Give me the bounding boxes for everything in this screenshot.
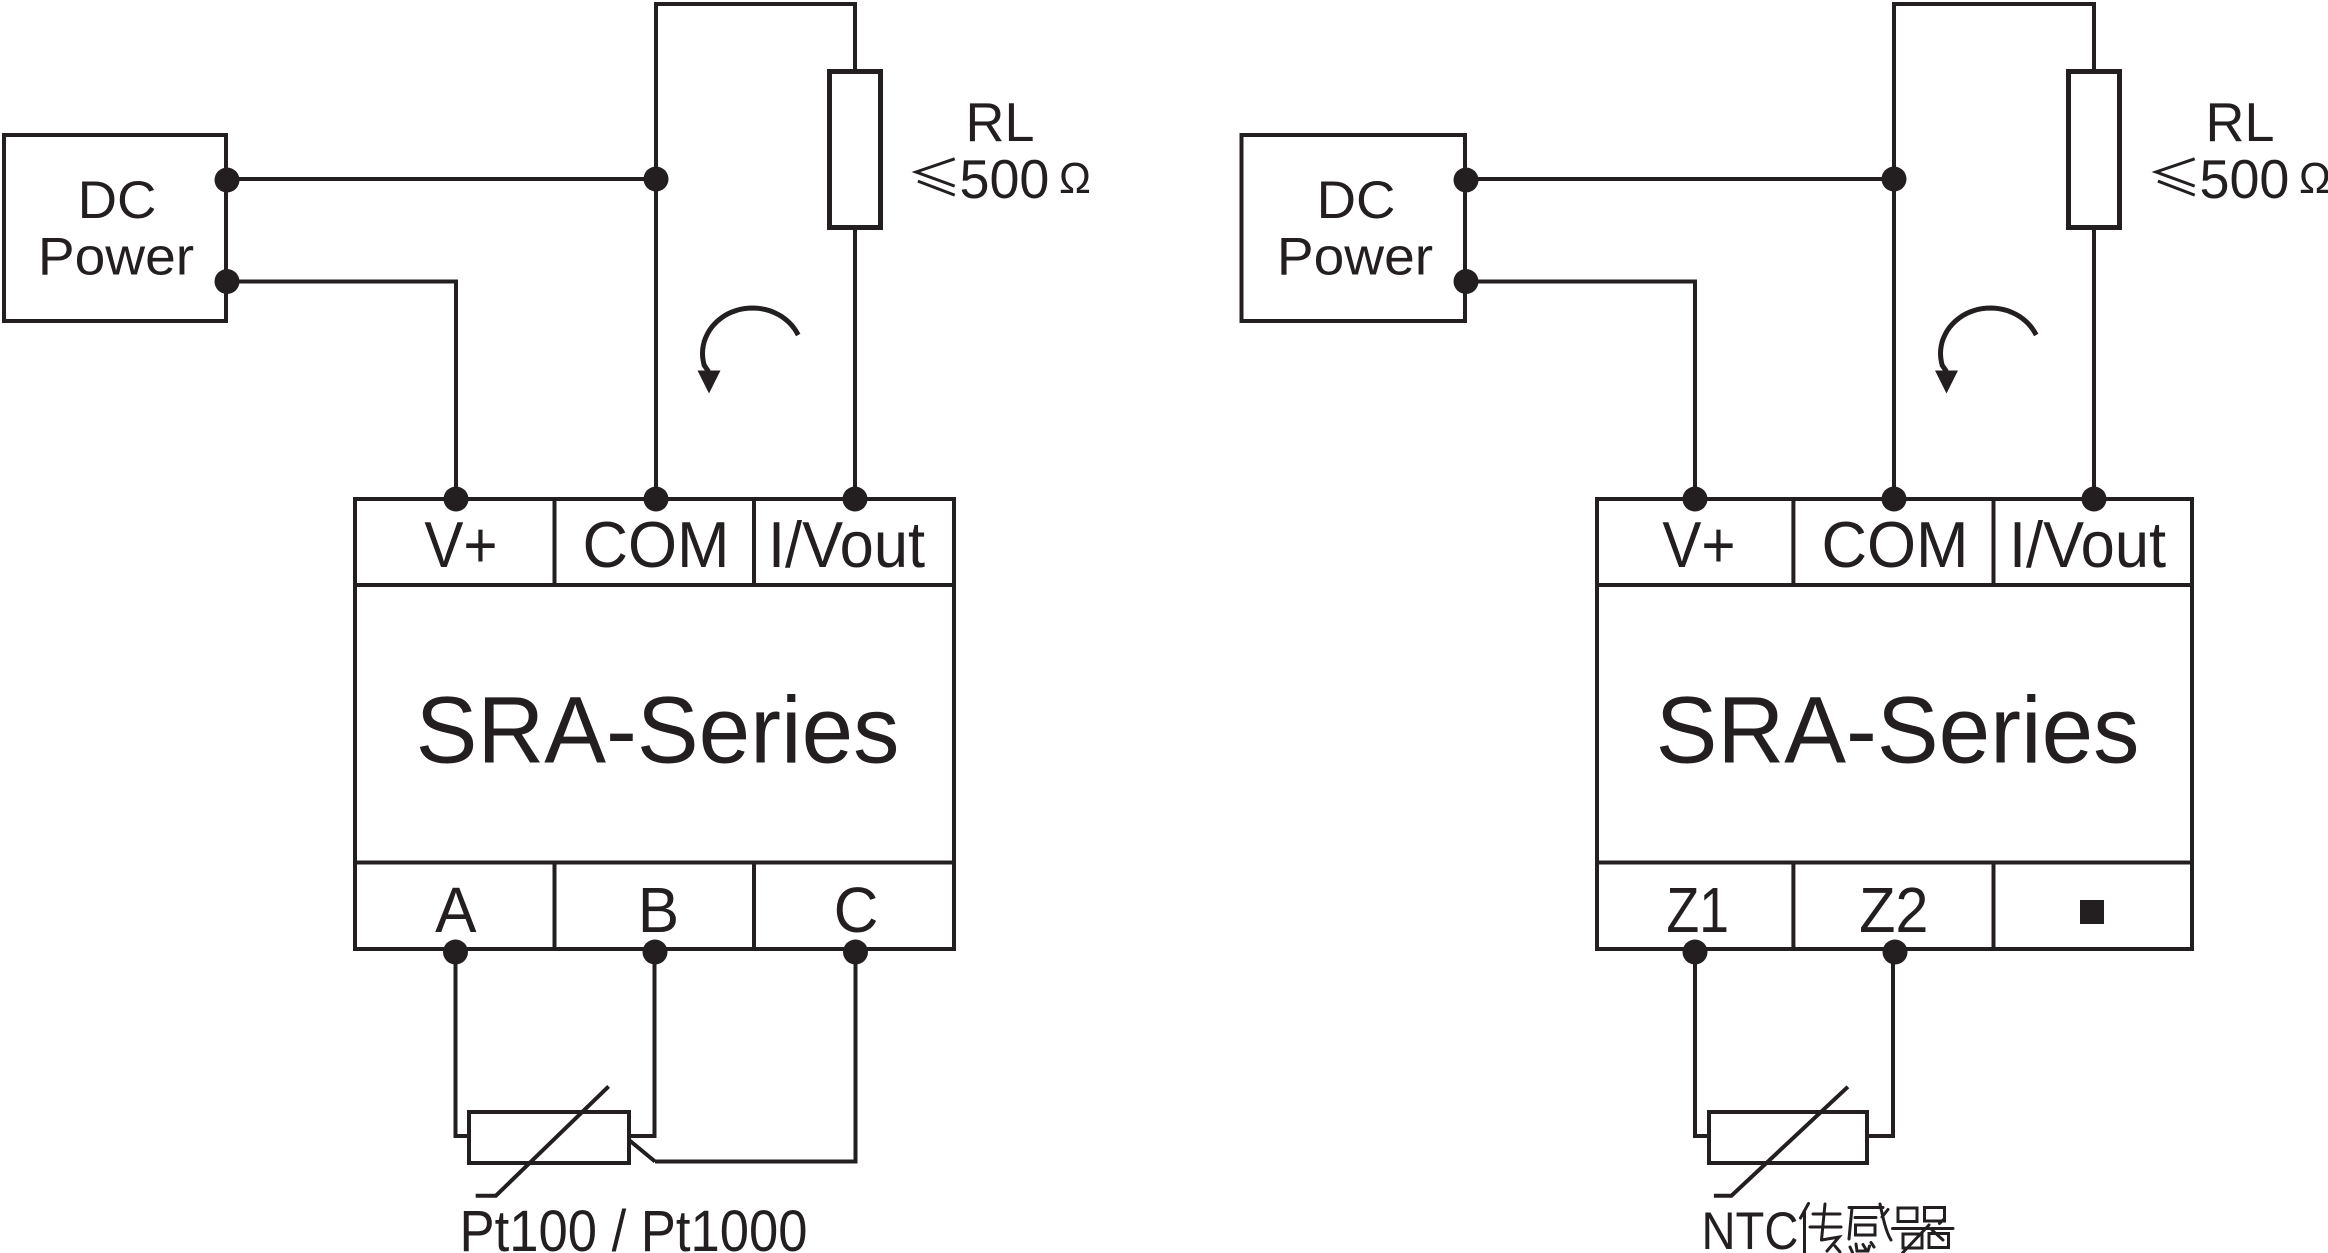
svg-text:500: 500 (2200, 149, 2290, 211)
svg-text:DC: DC (1317, 171, 1396, 230)
svg-text:Power: Power (38, 227, 194, 286)
svg-text:I/Vout: I/Vout (2009, 509, 2166, 581)
svg-text:Ω: Ω (2299, 154, 2328, 203)
node: DC+ terminal (left) (215, 168, 240, 193)
terminal dividers bottom row (right) (1793, 863, 1993, 950)
svg-text:Ω: Ω (1059, 154, 1091, 203)
svg-text:Power: Power (1277, 227, 1433, 286)
current direction arc (left) (703, 308, 799, 372)
node: Z1 terminal (1683, 940, 1708, 965)
svg-text:Z2: Z2 (1859, 875, 1928, 946)
wire: C return (655, 950, 856, 1162)
node: COM terminal (right) (1882, 487, 1907, 512)
wire: DC- to V+ (227, 282, 456, 499)
wire: sensor to terminal Z2 (1867, 950, 1893, 1136)
svg-text:A: A (435, 875, 476, 946)
svg-text:RL: RL (966, 92, 1035, 154)
hand-drawn CJK: chuan2 (NTC sensor label) (1801, 1204, 1842, 1253)
node: COM junction (right) (1882, 167, 1907, 192)
node: COM terminal (left) (644, 487, 669, 512)
resistor RL (left) (830, 72, 881, 228)
svg-text:Pt100 / Pt1000: Pt100 / Pt1000 (460, 1199, 808, 1253)
DC power source box (left) (4, 135, 226, 321)
wire: RL bottom to I/Vout (853, 228, 857, 499)
thermistor strike (right) (1714, 1087, 1848, 1196)
node: A terminal (443, 940, 468, 965)
wire: sensor diagonal link to C return (629, 1140, 655, 1162)
wire: DC+ to COM node (right) (1466, 177, 1894, 181)
wire: sensor to terminal B (629, 950, 655, 1136)
svg-text:SRA-Series: SRA-Series (1656, 676, 2140, 782)
svg-text:Z1: Z1 (1666, 874, 1729, 947)
terminal dividers top row (left) (555, 499, 755, 585)
node: I/Vout terminal (left) (843, 487, 868, 512)
wire: terminal A down to sensor (456, 950, 470, 1136)
node: V+ terminal (left) (444, 487, 469, 512)
hand-drawn CJK: qi4 (1893, 1208, 1954, 1253)
svg-text:RL: RL (2206, 92, 2275, 154)
svg-text:COM: COM (582, 508, 729, 581)
svg-text:C: C (834, 875, 879, 946)
node: B terminal (643, 940, 668, 965)
terminal row separator bottom (left) (355, 861, 954, 865)
terminal dividers top row (right) (1793, 499, 1993, 585)
module SRA-Series box (right) (1597, 499, 2192, 949)
svg-text:V+: V+ (424, 509, 497, 582)
hand-drawn CJK: gan3 (1849, 1204, 1891, 1253)
current direction arc (right) (1941, 308, 2037, 372)
terminal dividers bottom row (left) (555, 863, 755, 950)
node: C terminal (843, 940, 868, 965)
wire: COM riser and top link to RL (656, 4, 855, 498)
svg-text:COM: COM (1821, 508, 1968, 581)
terminal row separator top (right) (1597, 583, 2192, 587)
less-or-equal symbol (right) (2156, 159, 2195, 195)
arrowhead of current arc (right) (1935, 371, 1958, 394)
svg-text:V+: V+ (1662, 509, 1735, 582)
node: DC- terminal (left) (215, 269, 240, 294)
module SRA-Series box (left) (355, 499, 954, 949)
terminal row separator bottom (right) (1597, 861, 2192, 865)
wire: RL bottom to I/Vout (right) (2092, 228, 2096, 499)
unused terminal marker (square) (2080, 900, 2104, 924)
wire: terminal Z1 down to sensor (1695, 950, 1709, 1136)
svg-text:500: 500 (960, 149, 1050, 211)
less-or-equal symbol (left) (916, 159, 955, 195)
svg-text:B: B (638, 875, 679, 946)
svg-text:I/Vout: I/Vout (768, 509, 925, 581)
svg-text:NTC: NTC (1702, 1201, 1799, 1253)
arrowhead of current arc (left) (698, 371, 721, 394)
DC power source box (right) (1242, 135, 1466, 321)
node: DC+ terminal (right) (1454, 168, 1479, 193)
terminal row separator top (left) (355, 583, 954, 587)
resistor RL (right) (2069, 72, 2120, 228)
wire: DC- to V+ (right) (1466, 282, 1695, 499)
Pt100 sensor body (left) (469, 1112, 629, 1163)
node: V+ terminal (right) (1683, 487, 1708, 512)
node: I/Vout terminal (right) (2082, 487, 2107, 512)
svg-text:DC: DC (78, 171, 157, 230)
node: COM junction (left) (644, 167, 669, 192)
wire: DC+ to COM node (227, 177, 656, 181)
svg-text:SRA-Series: SRA-Series (416, 676, 900, 782)
thermistor strike (left) (476, 1086, 609, 1195)
node: Z2 terminal (1883, 940, 1908, 965)
wire: COM riser and top link to RL (right) (1894, 4, 2094, 498)
node: DC- terminal (right) (1454, 269, 1479, 294)
NTC sensor body (1709, 1112, 1867, 1163)
